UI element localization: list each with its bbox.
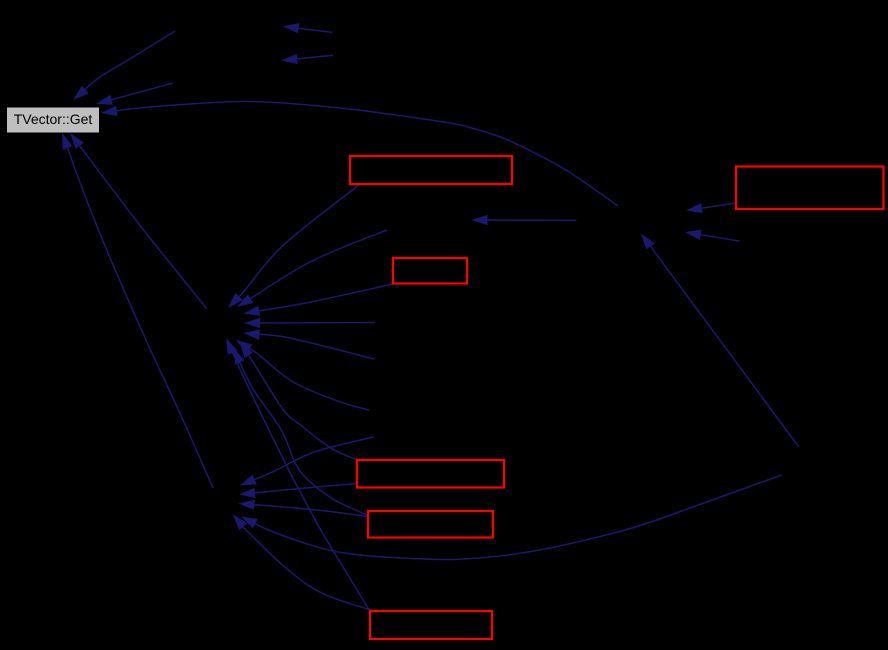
stub arrow into T2 <box>281 54 333 64</box>
edge box A to N1 <box>228 185 360 309</box>
red node F <box>370 611 492 639</box>
edge box E to N1 <box>233 348 368 516</box>
edge N3 to TVector::Get <box>101 101 618 206</box>
red node B <box>736 167 884 210</box>
svg-text:TVector::Get: TVector::Get <box>14 111 93 127</box>
edge N4 to N2 <box>241 475 782 560</box>
edge box F to N2 <box>233 515 378 613</box>
edge M4 to N1 <box>236 340 369 410</box>
edge N4 to N3 <box>641 234 799 448</box>
edge B2 to N3 <box>685 230 740 242</box>
edge box B to N3 <box>686 203 736 213</box>
edge N2 to TVector::Get <box>62 133 213 488</box>
edge M3 to N1 <box>244 330 375 360</box>
stub arrow into T1 <box>283 23 333 33</box>
edge box C to N1 <box>244 284 394 316</box>
edge N3 to M1 <box>472 215 577 225</box>
edge T1 to TVector::Get <box>73 31 175 100</box>
red node D <box>357 460 504 488</box>
edge M2 to N1 <box>244 318 375 328</box>
red node E <box>368 511 493 538</box>
edge box E to N2 <box>239 500 369 517</box>
edge M1 to N1 <box>237 230 387 307</box>
red node C <box>393 258 467 284</box>
edge N1 to TVector::Get <box>70 133 207 309</box>
edge M5 to N2 <box>240 437 374 486</box>
edge box D to N1 <box>240 342 359 460</box>
edge T2 to TVector::Get <box>96 83 173 105</box>
edge box F to N1 <box>226 338 371 613</box>
node TVector::Get <box>7 107 100 133</box>
red node A <box>350 156 512 184</box>
edge box D to N2 <box>239 484 357 499</box>
